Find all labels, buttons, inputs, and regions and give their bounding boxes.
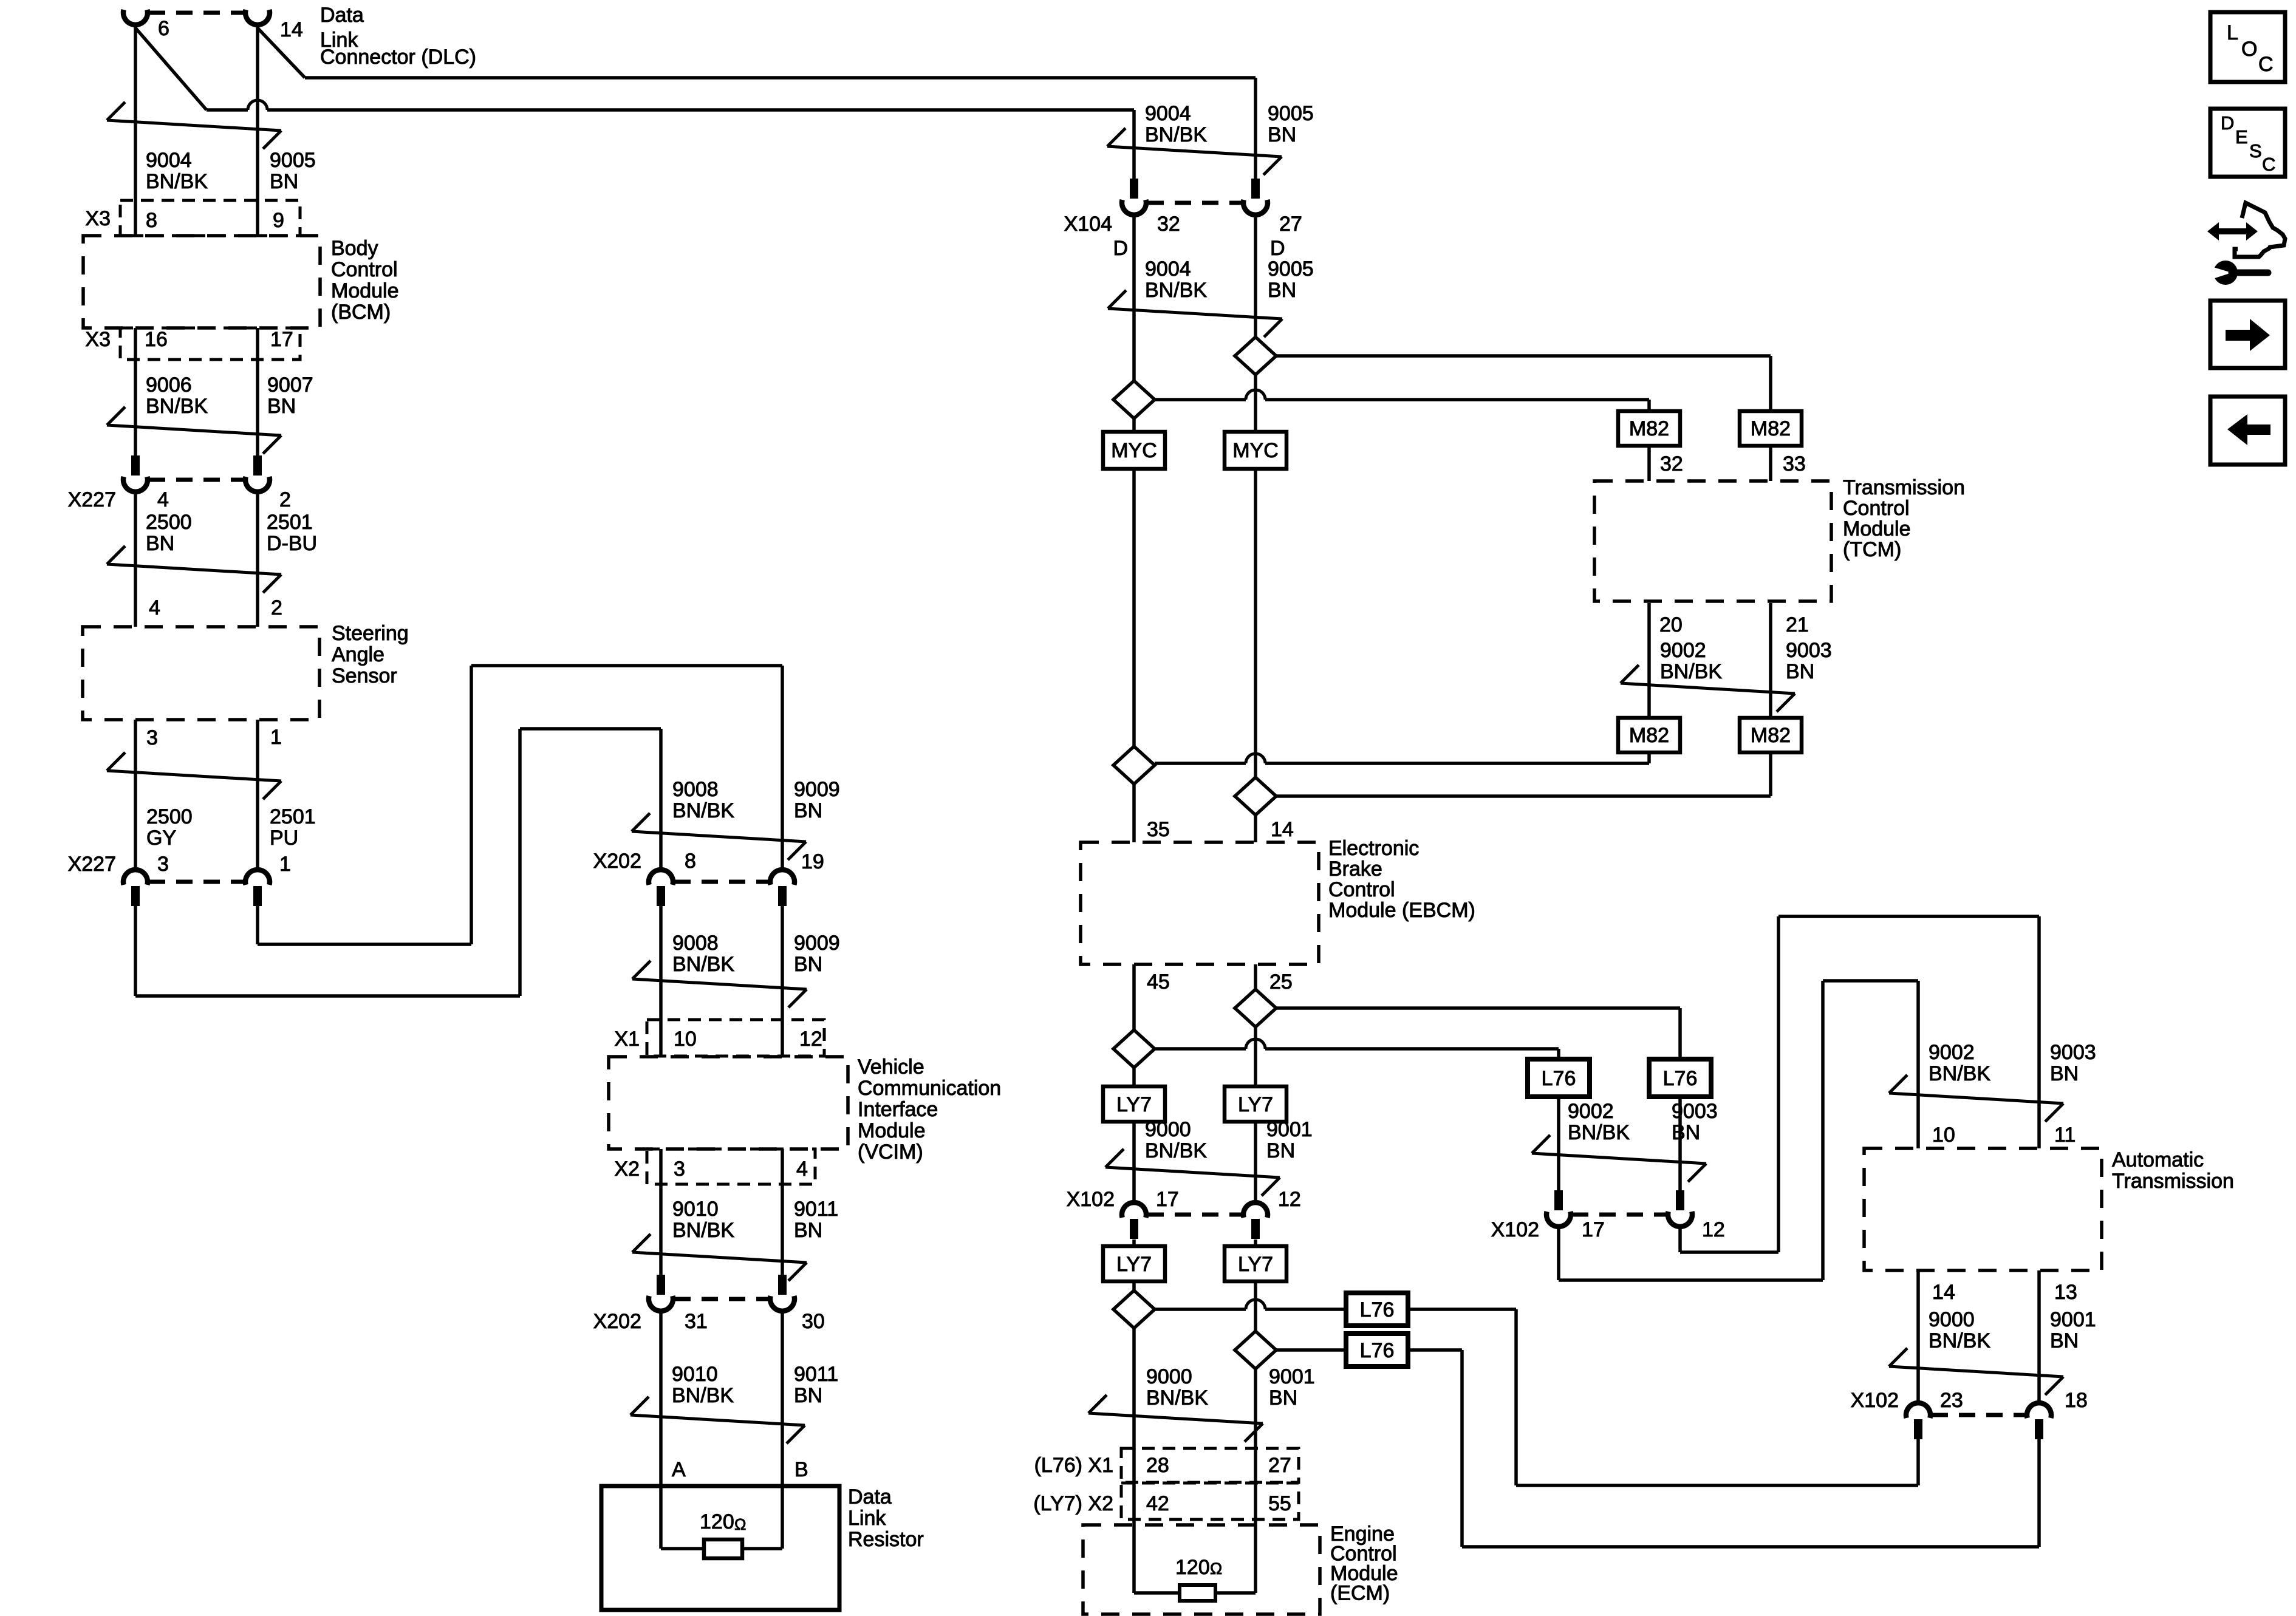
svg-text:S: S <box>2249 140 2262 162</box>
svg-text:B: B <box>794 1458 808 1481</box>
svg-text:BN/BK: BN/BK <box>672 1384 734 1407</box>
svg-text:9005: 9005 <box>1268 102 1314 125</box>
svg-text:9007: 9007 <box>267 373 313 397</box>
svg-text:31: 31 <box>685 1310 708 1333</box>
svg-text:Module (EBCM): Module (EBCM) <box>1328 899 1475 922</box>
svg-text:BN: BN <box>146 532 174 555</box>
svg-text:L76: L76 <box>1542 1067 1576 1090</box>
svg-text:9002: 9002 <box>1929 1041 1975 1064</box>
svg-text:27: 27 <box>1279 213 1302 236</box>
svg-text:14: 14 <box>1271 818 1294 841</box>
svg-text:C: C <box>2262 154 2275 175</box>
svg-text:12: 12 <box>1702 1218 1725 1241</box>
svg-text:BN: BN <box>1266 1139 1295 1162</box>
svg-text:Control: Control <box>1328 878 1395 901</box>
svg-text:9010: 9010 <box>672 1363 718 1386</box>
svg-text:C: C <box>2258 53 2274 76</box>
svg-text:9006: 9006 <box>146 373 192 397</box>
svg-text:BN/BK: BN/BK <box>146 170 208 193</box>
svg-text:BN: BN <box>1269 1386 1297 1410</box>
svg-text:16: 16 <box>145 328 168 351</box>
svg-text:9005: 9005 <box>1268 257 1314 281</box>
svg-text:X102: X102 <box>1851 1389 1899 1412</box>
svg-text:25: 25 <box>1269 970 1293 994</box>
svg-text:9011: 9011 <box>794 1363 838 1386</box>
svg-text:BN/BK: BN/BK <box>1145 123 1207 146</box>
svg-text:Communication: Communication <box>858 1077 1001 1100</box>
svg-text:9001: 9001 <box>1266 1118 1313 1141</box>
svg-text:X227: X227 <box>68 853 116 876</box>
svg-text:9000: 9000 <box>1929 1308 1975 1331</box>
svg-text:BN/BK: BN/BK <box>1568 1121 1630 1144</box>
svg-text:X102: X102 <box>1067 1188 1115 1211</box>
svg-text:9009: 9009 <box>794 932 840 955</box>
svg-text:17: 17 <box>1156 1188 1179 1211</box>
svg-text:X104: X104 <box>1064 213 1112 236</box>
svg-text:3: 3 <box>674 1157 685 1181</box>
svg-text:BN: BN <box>794 1384 822 1407</box>
svg-text:BN: BN <box>794 799 822 822</box>
svg-text:13: 13 <box>2054 1281 2077 1304</box>
svg-text:12: 12 <box>1278 1188 1301 1211</box>
svg-text:Automatic: Automatic <box>2112 1148 2204 1171</box>
svg-text:A: A <box>672 1458 686 1481</box>
svg-text:9009: 9009 <box>794 778 840 801</box>
svg-text:(ECM): (ECM) <box>1330 1582 1390 1605</box>
svg-text:BN/BK: BN/BK <box>1929 1062 1990 1085</box>
svg-text:L76: L76 <box>1663 1067 1698 1090</box>
svg-text:21: 21 <box>1786 613 1809 636</box>
svg-text:9011: 9011 <box>794 1198 838 1221</box>
svg-text:55: 55 <box>1268 1492 1291 1515</box>
svg-text:BN: BN <box>1268 123 1296 146</box>
svg-text:D: D <box>1113 237 1128 260</box>
svg-text:9005: 9005 <box>270 149 316 172</box>
svg-text:Electronic: Electronic <box>1328 837 1419 860</box>
svg-text:10: 10 <box>1932 1123 1955 1147</box>
svg-text:Module: Module <box>858 1119 926 1142</box>
svg-text:Transmission: Transmission <box>1843 476 1965 499</box>
svg-text:BN/BK: BN/BK <box>1145 279 1207 302</box>
svg-text:Brake: Brake <box>1328 857 1382 881</box>
svg-text:4: 4 <box>149 596 160 619</box>
svg-text:Module: Module <box>1843 517 1911 540</box>
svg-text:3: 3 <box>146 726 158 749</box>
svg-text:BN/BK: BN/BK <box>672 953 734 976</box>
svg-text:2: 2 <box>271 596 282 619</box>
svg-text:1: 1 <box>279 853 291 876</box>
svg-text:BN/BK: BN/BK <box>1660 660 1722 683</box>
svg-text:9008: 9008 <box>672 778 719 801</box>
svg-text:(VCIM): (VCIM) <box>858 1140 923 1164</box>
svg-text:BN: BN <box>2050 1062 2079 1085</box>
svg-text:9000: 9000 <box>1146 1365 1192 1388</box>
svg-text:8: 8 <box>146 209 157 232</box>
svg-text:2500: 2500 <box>146 805 193 828</box>
svg-text:L76: L76 <box>1360 1298 1395 1321</box>
svg-text:1: 1 <box>270 726 282 749</box>
svg-text:LY7: LY7 <box>1116 1093 1152 1116</box>
svg-text:Control: Control <box>331 258 398 281</box>
svg-text:2500: 2500 <box>146 511 192 534</box>
svg-text:Angle: Angle <box>332 643 384 666</box>
svg-text:Ω: Ω <box>734 1515 746 1533</box>
svg-text:BN: BN <box>794 953 822 976</box>
svg-text:Data: Data <box>848 1485 892 1509</box>
svg-text:Body: Body <box>331 237 378 260</box>
svg-text:33: 33 <box>1783 452 1806 476</box>
svg-text:D-BU: D-BU <box>267 532 317 555</box>
svg-text:18: 18 <box>2065 1389 2088 1412</box>
svg-text:2501: 2501 <box>267 511 313 534</box>
svg-text:BN: BN <box>270 170 298 193</box>
svg-text:M82: M82 <box>1629 724 1669 747</box>
svg-text:Control: Control <box>1843 497 1910 520</box>
svg-text:9003: 9003 <box>2050 1041 2096 1064</box>
svg-text:17: 17 <box>270 328 293 351</box>
svg-text:4: 4 <box>157 488 169 511</box>
svg-text:32: 32 <box>1157 213 1180 236</box>
svg-text:9004: 9004 <box>1145 257 1191 281</box>
svg-text:Module: Module <box>331 279 399 302</box>
svg-text:L76: L76 <box>1360 1339 1395 1362</box>
svg-text:BN: BN <box>1268 279 1296 302</box>
svg-text:D: D <box>2221 112 2234 134</box>
svg-text:14: 14 <box>280 18 303 41</box>
svg-text:PU: PU <box>270 827 298 850</box>
svg-text:Transmission: Transmission <box>2112 1170 2234 1193</box>
svg-text:19: 19 <box>801 850 824 873</box>
svg-text:9001: 9001 <box>1269 1365 1315 1388</box>
svg-text:6: 6 <box>158 17 169 40</box>
svg-text:X202: X202 <box>593 850 641 873</box>
svg-text:BN/BK: BN/BK <box>1145 1139 1207 1162</box>
svg-text:8: 8 <box>685 850 696 873</box>
svg-text:27: 27 <box>1268 1454 1291 1477</box>
svg-text:L: L <box>2227 21 2238 44</box>
svg-text:D: D <box>1270 237 1285 260</box>
svg-text:BN: BN <box>1786 660 1814 683</box>
svg-text:E: E <box>2235 126 2248 148</box>
svg-text:BN: BN <box>794 1219 822 1242</box>
svg-text:120: 120 <box>1175 1556 1210 1579</box>
svg-text:Interface: Interface <box>858 1098 938 1121</box>
svg-text:MYC: MYC <box>1111 439 1157 462</box>
svg-text:10: 10 <box>674 1028 697 1051</box>
svg-text:LY7: LY7 <box>1238 1253 1273 1276</box>
svg-text:Steering: Steering <box>332 622 409 645</box>
svg-text:Vehicle: Vehicle <box>858 1055 924 1079</box>
svg-text:32: 32 <box>1660 452 1683 476</box>
svg-text:35: 35 <box>1147 818 1170 841</box>
svg-text:(L76) X1: (L76) X1 <box>1034 1454 1113 1477</box>
svg-text:BN/BK: BN/BK <box>1929 1329 1990 1352</box>
svg-text:9: 9 <box>273 209 284 232</box>
svg-text:9008: 9008 <box>672 932 719 955</box>
svg-text:9003: 9003 <box>1786 639 1832 662</box>
svg-text:Link: Link <box>848 1507 886 1530</box>
svg-text:9004: 9004 <box>1145 102 1191 125</box>
svg-text:42: 42 <box>1146 1492 1169 1515</box>
svg-text:3: 3 <box>157 853 169 876</box>
svg-text:20: 20 <box>1659 613 1683 636</box>
svg-text:GY: GY <box>146 827 176 850</box>
svg-text:MYC: MYC <box>1232 439 1279 462</box>
svg-text:X3: X3 <box>85 207 111 230</box>
svg-text:9000: 9000 <box>1145 1118 1191 1141</box>
svg-text:2501: 2501 <box>270 805 316 828</box>
svg-text:BN/BK: BN/BK <box>672 1219 734 1242</box>
svg-text:X1: X1 <box>614 1028 640 1051</box>
svg-text:Sensor: Sensor <box>332 664 397 687</box>
svg-text:Data: Data <box>320 4 364 27</box>
svg-text:(TCM): (TCM) <box>1843 538 1901 561</box>
svg-text:BN: BN <box>1672 1121 1700 1144</box>
svg-text:Resistor: Resistor <box>848 1528 924 1551</box>
svg-text:X2: X2 <box>614 1157 640 1181</box>
svg-text:M82: M82 <box>1629 417 1669 440</box>
svg-text:M82: M82 <box>1751 417 1791 440</box>
svg-text:BN: BN <box>2050 1329 2079 1352</box>
svg-text:45: 45 <box>1147 970 1170 994</box>
svg-text:Connector (DLC): Connector (DLC) <box>320 46 476 69</box>
svg-text:9010: 9010 <box>672 1198 719 1221</box>
svg-text:9002: 9002 <box>1660 639 1706 662</box>
svg-text:2: 2 <box>279 488 291 511</box>
svg-text:M82: M82 <box>1751 724 1791 747</box>
svg-text:X102: X102 <box>1491 1218 1539 1241</box>
svg-text:17: 17 <box>1582 1218 1605 1241</box>
svg-text:LY7: LY7 <box>1238 1093 1273 1116</box>
svg-text:120: 120 <box>700 1510 734 1533</box>
svg-text:9003: 9003 <box>1672 1100 1718 1123</box>
svg-text:28: 28 <box>1146 1454 1169 1477</box>
svg-text:LY7: LY7 <box>1116 1253 1152 1276</box>
svg-text:23: 23 <box>1940 1389 1963 1412</box>
svg-text:Ω: Ω <box>1210 1560 1222 1578</box>
svg-text:X227: X227 <box>68 488 116 511</box>
svg-text:9001: 9001 <box>2050 1308 2096 1331</box>
svg-text:12: 12 <box>799 1028 822 1051</box>
svg-text:BN/BK: BN/BK <box>672 799 734 822</box>
svg-text:X3: X3 <box>85 328 111 351</box>
svg-text:14: 14 <box>1932 1281 1955 1304</box>
svg-text:BN/BK: BN/BK <box>1146 1386 1208 1410</box>
svg-text:9004: 9004 <box>146 149 192 172</box>
svg-text:9002: 9002 <box>1568 1100 1614 1123</box>
svg-text:4: 4 <box>796 1157 808 1181</box>
svg-text:30: 30 <box>802 1310 825 1333</box>
svg-text:X202: X202 <box>593 1310 641 1333</box>
svg-text:(BCM): (BCM) <box>331 301 391 324</box>
svg-text:(LY7) X2: (LY7) X2 <box>1033 1492 1113 1515</box>
svg-text:11: 11 <box>2054 1123 2076 1147</box>
svg-text:BN/BK: BN/BK <box>146 395 208 418</box>
svg-text:BN: BN <box>267 395 296 418</box>
svg-text:O: O <box>2241 38 2257 61</box>
